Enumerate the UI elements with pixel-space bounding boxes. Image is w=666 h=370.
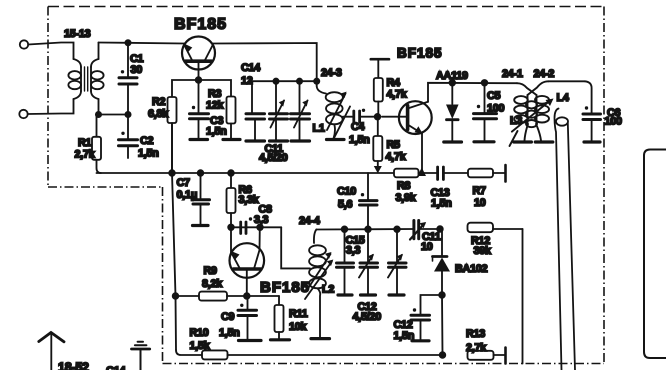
capacitor C4 1,5n	[343, 109, 378, 123]
svg-text:BF185: BF185	[174, 16, 227, 33]
coil L4	[555, 109, 576, 370]
node C1/C2 junction	[125, 112, 130, 117]
svg-text:C4: C4	[351, 121, 365, 133]
svg-text:L3: L3	[510, 115, 522, 127]
variable capacitor C11 10 (series)	[410, 221, 440, 240]
svg-text:1,5n: 1,5n	[138, 148, 159, 160]
svg-text:10: 10	[421, 241, 433, 253]
svg-text:5,6: 5,6	[338, 198, 353, 210]
svg-text:10k: 10k	[289, 321, 308, 333]
svg-text:C5: C5	[487, 90, 501, 102]
svg-text:C14: C14	[106, 365, 127, 370]
svg-text:8,2k: 8,2k	[202, 278, 223, 290]
svg-text:10: 10	[474, 197, 486, 209]
resistor R2 6,8k	[168, 97, 177, 173]
svg-text:12k: 12k	[206, 100, 225, 112]
svg-text:1,5k: 1,5k	[190, 340, 211, 352]
svg-text:3,3: 3,3	[346, 245, 361, 257]
svg-text:C14: C14	[241, 62, 260, 74]
svg-text:4,5/20: 4,5/20	[259, 152, 288, 164]
node R6 top	[228, 170, 234, 176]
svg-text:1,5n: 1,5n	[431, 198, 452, 210]
svg-text:4,5/20: 4,5/20	[353, 311, 382, 323]
node Q1 emitter junction	[196, 77, 202, 83]
wire Q1 collector to 24-3	[213, 43, 317, 86]
antenna symbol	[39, 333, 64, 370]
node emitter/bus	[417, 168, 426, 177]
osc bus left segment	[231, 226, 281, 228]
node trimmer2 top	[297, 79, 302, 84]
node C7 top	[198, 170, 204, 176]
svg-text:R7: R7	[473, 185, 487, 197]
node R6 bottom / C8 left	[228, 225, 234, 231]
capacitor C9 1,5n	[238, 296, 261, 341]
svg-text:100: 100	[605, 116, 623, 128]
svg-text:24-2: 24-2	[534, 68, 555, 80]
svg-text:AA119: AA119	[436, 70, 468, 82]
node BA102 top	[437, 226, 443, 232]
svg-text:3,3k: 3,3k	[239, 194, 260, 206]
svg-text:R3: R3	[208, 88, 222, 100]
svg-text:BF185: BF185	[260, 279, 310, 296]
svg-text:R1: R1	[78, 137, 92, 149]
svg-text:1,5n: 1,5n	[349, 134, 370, 146]
svg-text:6,8k: 6,8k	[148, 108, 169, 120]
node C14 rail	[314, 79, 319, 84]
node varcap2 top	[394, 226, 400, 232]
resistor R7 10	[468, 165, 506, 182]
resistor R6 3,3k	[227, 173, 236, 227]
resistor R5 4,7k	[373, 117, 382, 174]
svg-text:L4: L4	[557, 92, 569, 104]
svg-text:C7: C7	[177, 177, 191, 189]
svg-text:R10: R10	[190, 327, 209, 339]
node transformer bottom	[96, 112, 101, 117]
svg-text:BA102: BA102	[455, 263, 488, 275]
capacitor C6 100	[583, 81, 601, 142]
resistor R10 1,5k	[202, 350, 443, 359]
svg-text:0,1μ: 0,1μ	[177, 189, 198, 201]
capacitor C2 1,5n	[119, 115, 138, 159]
osc bus right segment	[316, 228, 413, 231]
diode AA119	[444, 80, 462, 142]
resistor R3 12k	[223, 97, 240, 140]
node Q3 emitter junction	[244, 293, 250, 299]
trimmer capacitor C12 4,5/20	[359, 229, 378, 295]
resistor R8 3,9k	[394, 169, 419, 178]
transformer 15-13	[68, 43, 103, 115]
wire input1 to transformer	[28, 43, 73, 60]
capacitor C10 5,6	[360, 173, 378, 229]
resistor R4 4,7k	[371, 59, 389, 116]
resistor R9 8,2k	[176, 292, 247, 301]
node C10 bottom	[365, 226, 371, 232]
svg-text:3,9k: 3,9k	[396, 192, 417, 204]
coil 24-1 24-2 L3	[510, 81, 554, 146]
svg-text:R9: R9	[204, 265, 218, 277]
svg-text:R5: R5	[387, 139, 401, 151]
wire C14 rail	[252, 80, 317, 82]
svg-text:12: 12	[241, 75, 253, 87]
capacitor C15 3,3	[337, 229, 354, 295]
node R4/R5/base	[375, 114, 381, 120]
capacitor C1 30	[119, 43, 137, 115]
svg-text:L2: L2	[322, 284, 334, 296]
input terminal 2	[19, 110, 27, 118]
capacitor C8 3,3	[241, 217, 253, 233]
svg-text:1,5n: 1,5n	[219, 327, 240, 339]
right connector box	[644, 150, 666, 359]
capacitor C13 1,5n	[438, 167, 444, 180]
svg-text:4,7k: 4,7k	[387, 89, 408, 101]
svg-text:4,7k: 4,7k	[386, 151, 407, 163]
wire C13 to R7	[443, 172, 468, 174]
wire C8 to coil tap	[281, 227, 310, 268]
svg-text:C9: C9	[221, 311, 235, 323]
capacitor C7 0,1u	[192, 173, 210, 226]
transistor Q2 BF185	[382, 101, 432, 134]
svg-text:24-1: 24-1	[502, 68, 523, 80]
svg-text:R11: R11	[289, 308, 308, 320]
svg-text:1,5n: 1,5n	[394, 330, 415, 342]
wire transformer to Q1 (top rail)	[99, 43, 185, 44]
svg-text:2,7k: 2,7k	[75, 149, 96, 161]
svg-text:39k: 39k	[474, 245, 493, 257]
wire Q2 collector rail	[428, 83, 517, 102]
svg-text:BF185: BF185	[397, 46, 443, 61]
trimmer capacitor C11 4,5/20	[270, 81, 288, 141]
node C1 top	[125, 40, 130, 45]
capacitor C3 1,5n	[190, 80, 209, 140]
svg-text:15-13: 15-13	[64, 28, 91, 40]
svg-text:C10: C10	[337, 186, 356, 198]
svg-text:30: 30	[131, 64, 143, 76]
trimmer capacitor (osc 2)	[388, 229, 406, 295]
svg-text:24-3: 24-3	[321, 67, 342, 79]
resistor R1 2,7k	[92, 115, 101, 174]
coil 24-3 L1	[317, 86, 350, 140]
svg-text:2,7k: 2,7k	[466, 342, 487, 354]
transistor Q1 BF185	[182, 37, 215, 81]
main bus wire (y173)	[97, 172, 395, 174]
svg-text:R13: R13	[466, 328, 485, 340]
node C8 right	[257, 225, 263, 231]
diode BA102	[433, 229, 451, 295]
resistor R11 10k	[271, 296, 290, 340]
earth ground symbol	[132, 342, 150, 370]
wire bus R8 to C13	[419, 172, 437, 174]
trimmer capacitor (osc section)	[291, 81, 310, 141]
node R2 bottom / left rail top	[169, 170, 175, 176]
node bottom bus	[440, 352, 446, 358]
wire Q1 bottom branch	[172, 80, 231, 173]
input terminal 1	[20, 40, 28, 48]
node R9 left	[173, 293, 179, 299]
svg-text:1,5n: 1,5n	[206, 126, 227, 138]
left rail wire (bus to bottom)	[172, 173, 176, 296]
svg-text:C2: C2	[140, 135, 154, 147]
wire secondary bottom	[99, 114, 129, 116]
coil 24-4 L2	[305, 230, 333, 339]
wire input2 to transformer	[28, 99, 74, 114]
capacitor C14 12	[246, 81, 265, 141]
wire BA102 to bottom bus	[441, 295, 444, 355]
transistor Q3 BF185	[230, 227, 265, 296]
wire Q2 emitter to bus	[421, 134, 423, 173]
wire coil to C6	[549, 80, 586, 82]
svg-text:R4: R4	[387, 77, 401, 89]
svg-text:R8: R8	[397, 180, 411, 192]
svg-text:24-4: 24-4	[299, 215, 320, 227]
svg-text:3,3: 3,3	[254, 214, 269, 226]
svg-text:L1: L1	[313, 123, 325, 135]
resistor R13 2,7k	[468, 348, 506, 364]
resistor R12 39k	[468, 223, 523, 364]
svg-text:100: 100	[487, 103, 505, 115]
svg-text:R2: R2	[152, 96, 166, 108]
node C15 top	[342, 226, 348, 232]
capacitor C12 1,5n	[411, 295, 442, 341]
node C12b junction	[439, 292, 445, 298]
svg-text:18-52: 18-52	[58, 361, 89, 370]
capacitor C5 100	[474, 80, 497, 142]
node trimmer1 top	[273, 79, 278, 84]
